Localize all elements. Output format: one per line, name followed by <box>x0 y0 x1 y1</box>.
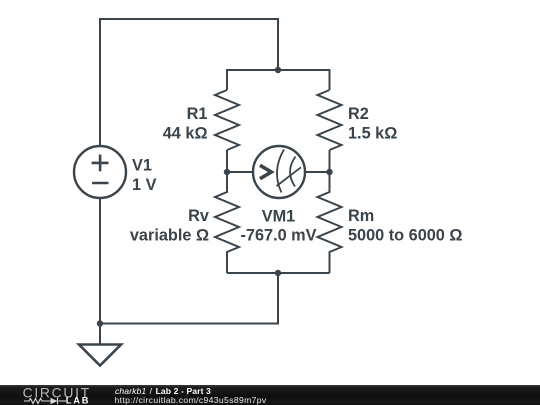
resistor Rm <box>318 172 342 273</box>
footer bar <box>0 385 540 405</box>
svg-text:R1: R1 <box>187 105 208 123</box>
label R2 name <box>348 105 369 123</box>
logo word LAB <box>66 395 90 405</box>
label R1 name <box>187 105 208 123</box>
label Rv value variable Ohm <box>130 226 209 244</box>
label R1 value 44 kOhm <box>163 125 208 143</box>
node A left bridge junction <box>224 169 230 175</box>
node top junction <box>275 67 281 73</box>
logo diode triangle <box>51 398 58 404</box>
wire bridge top rail <box>227 70 330 90</box>
wire bridge bottom rail <box>227 272 330 274</box>
footer title line <box>115 386 211 396</box>
label VM1 reading <box>240 227 316 245</box>
svg-text:-767.0 mV: -767.0 mV <box>240 227 316 245</box>
wire V1 bottom lead <box>99 198 101 345</box>
wire R2 bottom lead <box>329 150 331 172</box>
voltage source V1 minus sign <box>92 182 108 185</box>
CircuitLab logo <box>22 384 97 405</box>
resistor Rv <box>215 172 239 273</box>
wire bottom return to ground <box>100 273 278 324</box>
label V1 name <box>132 157 152 175</box>
ground symbol <box>79 345 121 366</box>
svg-text:V1: V1 <box>132 157 152 175</box>
svg-text:Rm: Rm <box>348 207 374 225</box>
node bottom junction <box>275 270 281 276</box>
svg-text:VM1: VM1 <box>262 208 295 226</box>
wire R1 bottom lead <box>226 150 228 172</box>
svg-text:1.5 kΩ: 1.5 kΩ <box>348 125 397 143</box>
logo resistor-diode squiggle <box>24 398 66 404</box>
voltmeter VM1 needle <box>277 167 302 186</box>
label Rm name <box>348 207 374 225</box>
voltmeter VM1 dial arcs <box>277 150 296 193</box>
label Rv name <box>188 207 209 225</box>
svg-text:5000 to 6000 Ω: 5000 to 6000 Ω <box>348 226 462 244</box>
wire top rail from V1 to bridge top node <box>100 19 278 146</box>
svg-text:R2: R2 <box>348 105 369 123</box>
label VM1 name <box>262 208 295 226</box>
svg-text:44 kΩ: 44 kΩ <box>163 125 208 143</box>
voltage source V1 <box>74 146 126 198</box>
wire middle right from voltmeter to node B <box>305 171 330 173</box>
voltmeter VM1 <box>253 146 305 198</box>
voltage source V1 plus sign <box>92 155 109 172</box>
label R2 value 1.5 kOhm <box>348 125 397 143</box>
voltmeter VM1 chevron <box>260 165 271 178</box>
label V1 value 1 V <box>132 176 157 194</box>
wire middle left from node A to voltmeter <box>227 171 253 173</box>
resistor R1 <box>215 90 239 150</box>
svg-text:variable Ω: variable Ω <box>130 226 209 244</box>
node B right bridge junction <box>326 169 332 175</box>
svg-text:LAB: LAB <box>66 395 90 405</box>
svg-text:1 V: 1 V <box>132 176 157 194</box>
svg-text:Rv: Rv <box>188 207 209 225</box>
node ground junction <box>97 320 103 326</box>
footer url line <box>115 395 267 405</box>
logo word CIRCUIT <box>23 384 91 400</box>
resistor R2 <box>318 90 342 150</box>
label Rm value 5000 to 6000 Ohm <box>348 226 462 244</box>
